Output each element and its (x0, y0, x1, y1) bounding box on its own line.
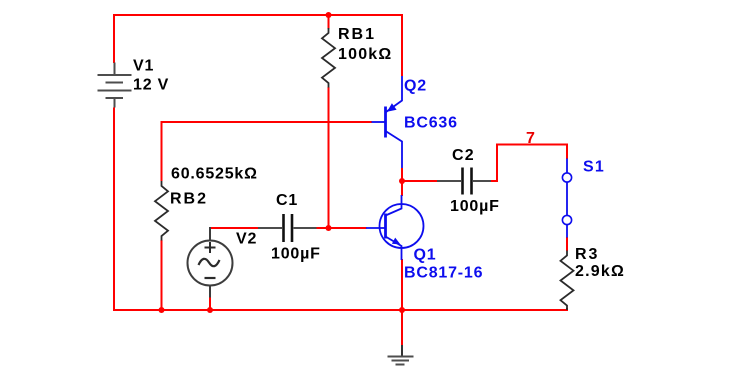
switch S1 (562, 159, 571, 238)
ac source V2 (188, 227, 233, 298)
node B junction (Q2 collector/Q1 collector/C2) (399, 178, 405, 184)
wire RB1 top lead (328, 15, 330, 29)
wire net 7 to S1 (566, 144, 568, 160)
svg-text:2.9kΩ: 2.9kΩ (575, 263, 625, 280)
svg-text:12 V: 12 V (133, 77, 169, 94)
wire RB1 bottom to node A (328, 87, 330, 228)
svg-text:V2: V2 (236, 231, 257, 248)
ground (388, 345, 414, 365)
wire ground stub (401, 310, 403, 345)
wire V2 to C1 (209, 227, 258, 229)
wire net 7 horizontal (496, 144, 567, 146)
node junction ground (399, 307, 405, 313)
svg-text:100kΩ: 100kΩ (338, 46, 392, 63)
transistor Q2 (PNP BC636) (372, 76, 403, 168)
wire C1 to node A to Q1 base (317, 227, 367, 229)
node junction V2 bottom (207, 307, 213, 313)
wire left rail upper (V1 top to rail) (113, 14, 115, 63)
svg-text:S1: S1 (583, 159, 605, 176)
svg-text:C2: C2 (452, 147, 475, 164)
node junction RB2 bottom (159, 307, 165, 313)
resistor R3 (561, 251, 574, 311)
wire RB2 bottom vertical (161, 240, 163, 311)
wire V2 bottom (209, 297, 211, 311)
svg-text:R3: R3 (575, 246, 599, 263)
wire RB2 top vertical (161, 121, 163, 181)
wire net 7 vertical left (496, 145, 498, 183)
wire top rail (114, 14, 402, 16)
svg-text:60.6525kΩ: 60.6525kΩ (171, 166, 258, 183)
wire Q2 base to RB2 top horizontal (162, 121, 373, 123)
svg-text:Q1: Q1 (414, 247, 437, 264)
transistor Q1 (NPN BC817-16) (366, 195, 424, 260)
resistor RB2 (155, 181, 168, 241)
svg-text:100µF: 100µF (450, 198, 500, 215)
svg-text:V1: V1 (133, 58, 154, 75)
wire C2 right to corner (491, 180, 498, 182)
svg-text:100µF: 100µF (271, 246, 321, 263)
wire Q2 collector to node B (401, 168, 403, 182)
svg-text:7: 7 (526, 130, 536, 147)
wire bottom rail (114, 309, 567, 311)
node A junction (RB1/C1/Q1 base) (326, 225, 332, 231)
wire left rail lower (V1 bottom to ground rail) (113, 108, 115, 312)
wire Q1 emitter to ground rail (401, 259, 403, 310)
svg-text:RB1: RB1 (338, 26, 376, 43)
battery V1 (98, 63, 132, 108)
resistor RB1 (322, 28, 335, 88)
wire VCC to Q2 emitter (401, 14, 403, 76)
capacitor C1 (258, 214, 317, 242)
capacitor C2 (437, 168, 491, 195)
svg-text:C1: C1 (276, 192, 298, 209)
wire R3 bottom to rail (566, 308, 568, 311)
wire node B to Q1 collector (401, 181, 403, 196)
svg-text:BC636: BC636 (404, 115, 458, 132)
svg-text:Q2: Q2 (404, 78, 427, 95)
svg-text:RB2: RB2 (170, 191, 208, 208)
svg-text:BC817-16: BC817-16 (404, 265, 483, 282)
node junction RB1 top (326, 12, 332, 18)
wire node B to C2 (402, 180, 437, 182)
wire S1 to R3 (566, 237, 568, 251)
